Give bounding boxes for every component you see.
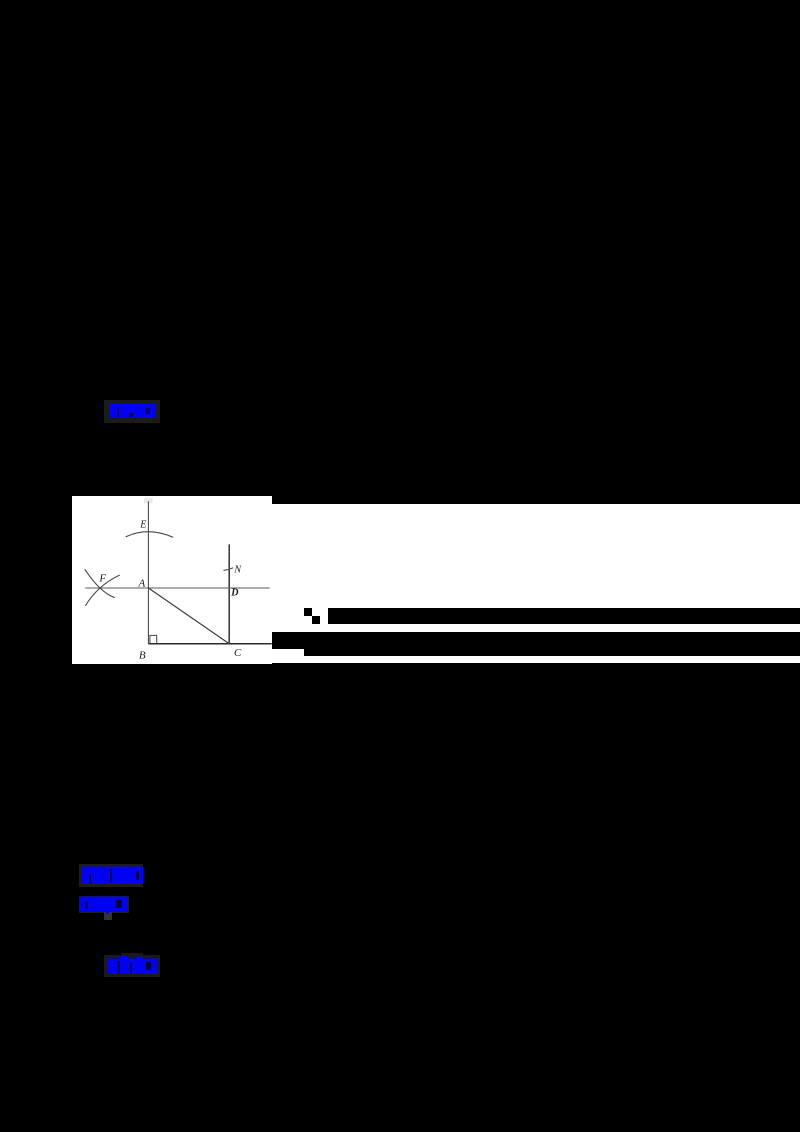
- highlight box behind blue label 2: [79, 864, 143, 887]
- small tick arc at N: [223, 567, 233, 570]
- svg-text:B: B: [139, 649, 146, 661]
- svg-text:F: F: [98, 572, 106, 584]
- construction cross arc 2 at F: [85, 575, 120, 606]
- right angle mark at B: [150, 635, 157, 643]
- svg-text:C: C: [234, 646, 242, 658]
- black text bar 2 lower: [304, 649, 800, 656]
- white text band right of figure: [272, 504, 800, 663]
- gray handle square at top of vertical line: [144, 497, 153, 503]
- dark nub below label 3: [104, 912, 112, 920]
- black text bar 2 upper: [272, 632, 800, 649]
- svg-text:D: D: [230, 587, 238, 598]
- blue label 2: [82, 867, 143, 884]
- blue label 4: [108, 959, 158, 974]
- svg-text:A: A: [137, 577, 145, 589]
- construction cross arc 1 at F: [85, 569, 115, 597]
- horizontal line through F, A, D: [85, 587, 270, 589]
- svg-text:N: N: [233, 564, 242, 575]
- blue speck below label 3: [106, 912, 109, 915]
- figure image white background: [72, 496, 272, 664]
- svg-text:E: E: [139, 519, 146, 530]
- blue label 3: [80, 897, 128, 911]
- black text bar 1: [328, 608, 800, 624]
- highlight box behind blue label 3: [79, 896, 129, 913]
- construction arc near E: [125, 531, 173, 537]
- vertical line through A and B: [147, 501, 149, 643]
- highlight box behind blue label 4: [104, 955, 160, 977]
- highlight box behind blue label 1: [104, 400, 160, 423]
- blue label 1: [109, 404, 156, 418]
- vertical line through N, D and C: [228, 544, 230, 643]
- hypotenuse A to C: [148, 588, 229, 644]
- ideographic comma mark: [304, 608, 312, 616]
- bottom line B to C extended: [148, 642, 271, 644]
